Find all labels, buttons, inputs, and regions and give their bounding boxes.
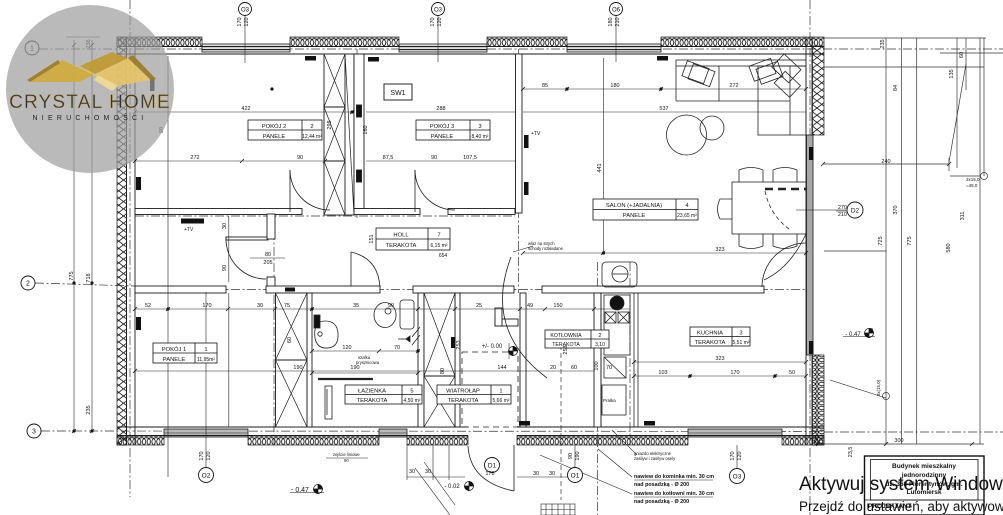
svg-text:O3: O3 [434,8,443,14]
svg-text:Przejdź do ustawień, aby aktyw: Przejdź do ustawień, aby aktywować [799,499,1003,514]
svg-text:23,65 m²: 23,65 m² [677,213,697,219]
svg-text:90: 90 [222,265,228,271]
svg-text:35: 35 [353,303,359,309]
svg-text:11,95m²: 11,95m² [197,357,215,363]
svg-text:nawiew do kominka min. 30 cm: nawiew do kominka min. 30 cm [634,474,714,480]
svg-text:NIERUCHOMOŚCI: NIERUCHOMOŚCI [33,113,148,122]
svg-text:135: 135 [949,69,955,78]
svg-text:30: 30 [257,303,263,309]
svg-text:3: 3 [478,124,481,130]
svg-text:23,5: 23,5 [848,447,854,458]
svg-text:170: 170 [199,451,205,460]
svg-text:60: 60 [959,52,965,58]
svg-text:180: 180 [610,83,619,89]
svg-text:+TV: +TV [184,227,194,233]
svg-text:90: 90 [344,458,349,463]
svg-text:107,5: 107,5 [463,155,477,161]
svg-text:POKÓJ 3: POKÓJ 3 [430,123,454,130]
svg-text:537: 537 [659,106,668,112]
svg-text:zasilyw i zasilyw osely: zasilyw i zasilyw osely [634,456,676,461]
svg-text:2: 2 [310,124,313,130]
svg-text:210: 210 [838,212,847,218]
svg-text:311: 311 [960,212,966,221]
svg-text:nawiew do kotłowni min. 30 cm: nawiew do kotłowni min. 30 cm [634,491,714,497]
svg-text:3: 3 [32,429,36,436]
svg-text:6,15 m²: 6,15 m² [431,243,448,249]
svg-text:190: 190 [293,365,302,371]
svg-text:KOTŁOWNIA: KOTŁOWNIA [550,333,582,339]
svg-text:441: 441 [597,163,603,172]
svg-text:170: 170 [730,370,739,376]
svg-text:49: 49 [527,303,533,309]
svg-text:38: 38 [611,303,617,309]
svg-text:50: 50 [789,370,795,376]
svg-text:WIATROŁAP: WIATROŁAP [446,389,480,395]
svg-text:3: 3 [739,331,742,337]
svg-text:170: 170 [237,17,243,26]
svg-text:TERAKOTA: TERAKOTA [448,398,479,404]
svg-text:580: 580 [946,243,952,252]
svg-text:SW1: SW1 [390,90,405,97]
svg-text:30: 30 [425,469,431,475]
svg-text:60: 60 [571,365,577,371]
svg-text:TERAKOTA: TERAKOTA [386,243,417,249]
svg-text:20: 20 [550,365,556,371]
svg-text:70: 70 [606,365,612,371]
svg-text:84: 84 [893,85,899,91]
svg-text:422: 422 [241,106,250,112]
svg-text:ŁAZIENKA: ŁAZIENKA [358,389,386,395]
svg-text:4,50 m²: 4,50 m² [404,398,421,404]
svg-text:1: 1 [204,347,207,353]
svg-text:160: 160 [363,125,369,134]
svg-text:3,10: 3,10 [595,342,605,348]
svg-text:5: 5 [410,389,413,395]
svg-text:654: 654 [439,253,448,259]
svg-text:prysznicowa: prysznicowa [356,360,380,365]
svg-text:30: 30 [222,223,228,229]
svg-text:90: 90 [431,155,437,161]
svg-text:270: 270 [838,205,847,211]
svg-text:725: 725 [878,236,884,245]
svg-text:90: 90 [297,155,303,161]
svg-text:775: 775 [907,236,913,245]
svg-text:120: 120 [206,451,212,460]
svg-text:235: 235 [880,39,886,48]
svg-text:8,40 m²: 8,40 m² [472,134,489,140]
svg-text:- 0.47: - 0.47 [845,332,861,338]
svg-text:O3: O3 [733,474,742,481]
svg-text:210: 210 [615,17,621,26]
svg-text:O2: O2 [202,473,211,480]
svg-text:HOLL: HOLL [393,233,409,239]
svg-text:120: 120 [437,17,443,26]
svg-text:180: 180 [608,17,614,26]
svg-text:75: 75 [284,303,290,309]
svg-text:D1: D1 [488,463,497,470]
svg-text:253: 253 [563,345,569,354]
svg-text:TERAKOTA: TERAKOTA [695,340,726,346]
svg-text:295: 295 [327,120,333,129]
svg-text:Budynek mieszkalny: Budynek mieszkalny [892,463,956,470]
svg-text:80: 80 [265,252,271,258]
svg-text:170: 170 [730,451,736,460]
svg-text:90: 90 [388,303,394,309]
svg-text:Pralka: Pralka [603,398,616,403]
svg-text:nad posadzką - Ø 200: nad posadzką - Ø 200 [634,499,689,505]
svg-text:POKÓJ 1: POKÓJ 1 [162,346,186,353]
svg-text:- 0.02: - 0.02 [444,484,460,490]
svg-text:7: 7 [437,233,440,239]
svg-text:90: 90 [568,453,574,459]
svg-text:O3: O3 [241,8,250,14]
svg-text:170: 170 [202,303,211,309]
svg-text:144: 144 [497,365,506,371]
svg-text:85: 85 [542,83,548,89]
svg-text:52: 52 [145,303,151,309]
svg-text:D2: D2 [851,208,860,215]
svg-text:PANELE: PANELE [431,134,454,140]
svg-text:80: 80 [440,368,446,374]
svg-text:100: 100 [594,361,600,370]
svg-text:103: 103 [658,370,667,376]
svg-text:O1: O1 [571,473,580,480]
svg-text:370: 370 [893,205,899,214]
svg-text:2: 2 [26,281,30,288]
svg-text:2: 2 [598,333,601,339]
svg-text:KUCHNIA: KUCHNIA [697,331,723,337]
svg-text:235: 235 [86,405,92,414]
svg-text:120: 120 [737,451,743,460]
svg-text:nad posadzką - Ø 200: nad posadzką - Ø 200 [634,482,689,488]
svg-text:PANELE: PANELE [263,134,286,140]
svg-text:1: 1 [499,389,502,395]
svg-text:170: 170 [430,17,436,26]
svg-text:323: 323 [715,247,724,253]
svg-text:TERAKOTA: TERAKOTA [357,398,388,404]
svg-text:SALON (+JADALNIA): SALON (+JADALNIA) [606,203,662,209]
svg-text:178: 178 [485,471,494,477]
svg-text:5,66 m²: 5,66 m² [493,398,510,404]
svg-text:323: 323 [715,356,724,362]
svg-text:3x15,0: 3x15,0 [966,177,980,182]
svg-text:253: 253 [456,340,462,349]
svg-text:288: 288 [436,106,445,112]
svg-text:zejście liniowe: zejście liniowe [333,452,360,457]
svg-text:272: 272 [190,155,199,161]
svg-text:190: 190 [575,451,581,460]
svg-text:schody rozkładane: schody rozkładane [528,246,564,251]
svg-text:+/- 0.00: +/- 0.00 [482,344,503,350]
svg-text:272: 272 [729,83,738,89]
svg-text:120: 120 [244,17,250,26]
svg-text:CRYSTAL HOME: CRYSTAL HOME [9,92,171,113]
svg-text:30: 30 [533,471,539,477]
svg-text:PANELE: PANELE [163,357,186,363]
svg-text:120: 120 [342,345,351,351]
svg-text:30: 30 [549,471,555,477]
svg-text:150: 150 [553,303,562,309]
svg-text:5,51 m²: 5,51 m² [733,340,750,346]
svg-text:151: 151 [369,234,375,243]
svg-text:718: 718 [86,273,92,282]
svg-text:775: 775 [69,271,75,280]
svg-text:240: 240 [881,159,890,165]
svg-text:PANELE: PANELE [623,213,646,219]
svg-text:30: 30 [409,469,415,475]
svg-text:25: 25 [476,303,482,309]
svg-text:Aktywuj system Windows: Aktywuj system Windows [799,474,1003,495]
svg-text:O6: O6 [612,8,621,14]
svg-text:+TV: +TV [531,131,541,137]
svg-text:205: 205 [263,260,272,266]
svg-text:POKÓJ 2: POKÓJ 2 [262,123,286,130]
svg-text:- 0.47: - 0.47 [291,487,309,494]
svg-text:190: 190 [350,365,359,371]
svg-text:3x(15,0): 3x(15,0) [876,379,881,396]
svg-text:12,44 m²: 12,44 m² [302,134,322,140]
svg-text:60: 60 [287,337,293,343]
svg-text:=45,0: =45,0 [966,183,978,188]
svg-text:70: 70 [394,345,400,351]
svg-text:300: 300 [894,438,903,444]
svg-text:87,5: 87,5 [383,155,394,161]
